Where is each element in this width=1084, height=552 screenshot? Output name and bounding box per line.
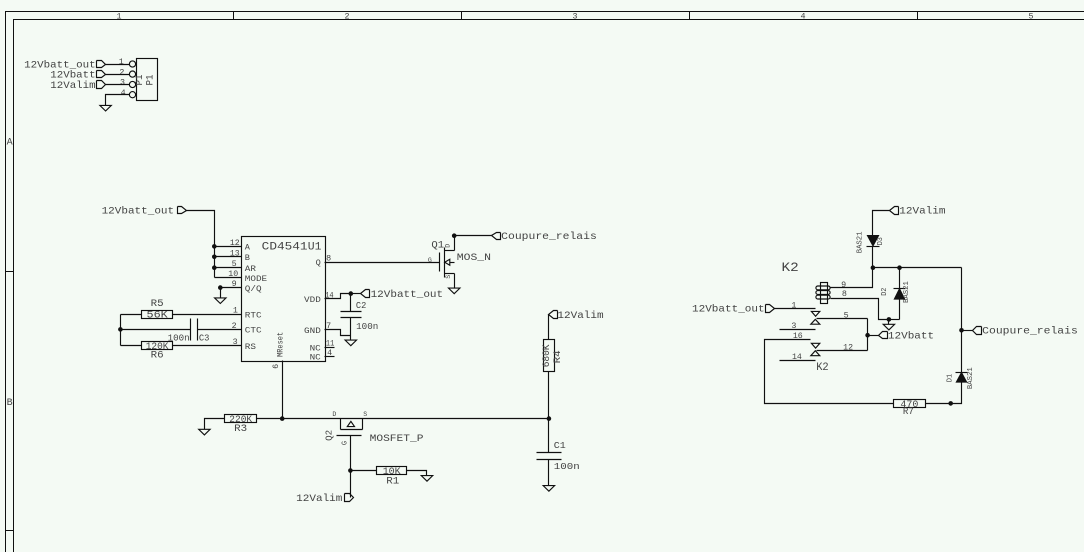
svg-text:B: B <box>245 253 250 263</box>
svg-text:3: 3 <box>572 11 577 21</box>
junction 12Vbatt node <box>865 333 870 338</box>
wire R7 right <box>926 403 951 405</box>
wire to 12Vbatt label <box>868 335 879 337</box>
svg-text:100n: 100n <box>168 334 190 344</box>
net label 12Valim at Q2 gate <box>345 494 354 502</box>
wire top rail down to Coupure node <box>961 268 963 331</box>
junction top node D2 <box>897 265 902 270</box>
svg-text:4: 4 <box>800 11 805 21</box>
transistor Q2 MOSFET_P <box>323 411 423 471</box>
ground <box>421 476 432 482</box>
svg-text:Coupure_relais: Coupure_relais <box>982 326 1078 338</box>
ground <box>449 288 460 294</box>
svg-text:CD4541: CD4541 <box>262 242 308 254</box>
net label 12Valim top right <box>890 207 899 215</box>
svg-text:12Vbatt: 12Vbatt <box>888 330 934 342</box>
svg-text:BAS21: BAS21 <box>857 231 865 253</box>
wire U1 pin 9 QQ to ground <box>221 288 242 298</box>
net label 12Vbatt_out at VDD <box>361 290 370 298</box>
svg-text:AR: AR <box>245 264 256 274</box>
op-amp U1 CD4541 body <box>242 237 326 362</box>
wire vertical R5-R6 tie <box>120 315 122 346</box>
wire stub U1 pin 4 NC <box>325 356 335 358</box>
svg-text:1: 1 <box>116 11 121 21</box>
net label 12Valim at P1 pin 3 <box>97 81 106 89</box>
svg-text:Q2: Q2 <box>323 430 334 441</box>
relay K2 contact 2 <box>811 343 820 355</box>
resistor R7 <box>894 400 926 408</box>
wire U1 pin 7 GND to C2 bottom <box>325 330 351 336</box>
svg-text:BAS21: BAS21 <box>903 281 911 303</box>
wire K2 pin 1 <box>775 308 816 310</box>
diode D3 BAS21 <box>868 236 879 246</box>
wire node to ground <box>888 320 890 325</box>
wire D2 anode to node <box>889 319 900 321</box>
wire stub U1 pin 5 AR <box>215 267 242 269</box>
wire Q1 drain to Coupure_relais <box>455 235 492 237</box>
svg-text:3: 3 <box>120 78 125 88</box>
wire C3 to CTC pin 2 <box>198 329 242 331</box>
wire gate node down to 12Valim <box>350 471 352 498</box>
svg-text:G: G <box>428 257 432 264</box>
resistor R5 <box>142 311 173 319</box>
svg-text:GND: GND <box>304 326 321 336</box>
wire K2 pin 14 <box>780 360 816 362</box>
capacitor C1 <box>537 452 562 454</box>
svg-text:Q1: Q1 <box>431 240 444 251</box>
svg-text:MOSFET_P: MOSFET_P <box>370 434 424 445</box>
svg-text:MOS_N: MOS_N <box>457 253 491 264</box>
svg-text:12Vbatt_out: 12Vbatt_out <box>692 304 765 316</box>
svg-text:BAS21: BAS21 <box>967 367 975 389</box>
junction at pin 13 tap <box>212 254 217 259</box>
svg-text:12Valim: 12Valim <box>557 310 603 322</box>
svg-text:RTC: RTC <box>245 310 262 320</box>
svg-text:K2: K2 <box>816 362 829 374</box>
junction at pin 9 corner <box>218 285 223 290</box>
wire K2 pin 8 <box>831 299 889 320</box>
svg-text:S: S <box>445 275 452 279</box>
svg-text:R3: R3 <box>234 424 247 435</box>
relay K2 contact 1 <box>811 311 820 324</box>
capacitor C2 <box>350 294 352 312</box>
wire P1 pin 4 to ground <box>106 95 130 106</box>
net label Coupure_relais at Q1 <box>492 233 501 240</box>
relay K2 coil <box>816 283 830 304</box>
svg-text:Q: Q <box>316 258 321 268</box>
ground <box>199 429 210 435</box>
wire K2 pin 16 to R7 <box>765 340 894 404</box>
wire 12Valim to D3 <box>873 211 890 236</box>
net label 12Vbatt at P1 pin 2 <box>97 71 106 78</box>
net label 12Valim at R4 <box>549 311 558 319</box>
svg-text:4: 4 <box>121 88 126 98</box>
svg-text:12: 12 <box>230 238 240 248</box>
junction Q1 drain <box>452 233 457 238</box>
wire P1 pin 1 <box>106 64 130 66</box>
wire Coupure node to D1 <box>961 331 963 373</box>
junction D2 ground node <box>887 317 892 322</box>
wire stub U1 pin 10 MODE <box>215 277 242 279</box>
wire R4 to node <box>548 372 550 419</box>
svg-text:8: 8 <box>842 289 847 299</box>
wire R5 to RTC pin 1 <box>173 314 242 316</box>
wire R5 left <box>121 314 142 316</box>
wire Coupure stub <box>962 330 973 332</box>
svg-text:12Vbatt_out: 12Vbatt_out <box>102 205 175 217</box>
wire CTC left to C3 <box>121 329 191 331</box>
junction at pin 12 tap <box>212 244 217 249</box>
svg-text:VDD: VDD <box>304 295 321 305</box>
ground <box>215 298 226 304</box>
wire R6 left <box>121 345 142 347</box>
svg-text:D1: D1 <box>946 373 954 382</box>
diode D2 BAS21 <box>899 268 901 289</box>
wire R3 left to ground <box>205 419 225 430</box>
svg-text:R1: R1 <box>386 476 399 487</box>
net label 12Vbatt_out at K2 pin 1 <box>766 305 775 313</box>
wire C1 to ground <box>548 460 550 486</box>
junction Coupure node <box>959 328 964 333</box>
resistor R6 <box>142 342 173 350</box>
svg-text:D2: D2 <box>881 288 889 296</box>
svg-text:A: A <box>7 138 13 149</box>
svg-text:Q/Q: Q/Q <box>245 284 262 294</box>
svg-text:MODE: MODE <box>245 274 267 284</box>
wire D1 anode down <box>951 383 962 404</box>
svg-text:680K: 680K <box>542 344 553 368</box>
wire stub U1 pin 13 B <box>215 256 242 258</box>
svg-text:2: 2 <box>119 67 124 77</box>
svg-text:G: G <box>341 441 349 445</box>
wire U1 pin 14 VDD to C2 <box>325 294 351 299</box>
svg-text:9: 9 <box>232 279 237 289</box>
wire stub U1 pin 12 A <box>215 246 242 248</box>
junction R4 C1 node <box>547 416 552 421</box>
svg-text:CTC: CTC <box>245 326 262 336</box>
net label 12Vbatt_out to U1 inputs <box>178 207 187 214</box>
ground <box>883 324 894 330</box>
junction Q2 gate node <box>348 468 353 473</box>
svg-text:R7: R7 <box>903 407 914 418</box>
junction R7 right node <box>948 401 953 406</box>
wire stub U1 pin 11 NC <box>325 347 335 349</box>
junction RC tie <box>118 327 123 332</box>
wire K2 pin 12 <box>817 350 868 352</box>
svg-text:NC: NC <box>310 353 321 363</box>
resistor R4 <box>544 340 555 372</box>
wire VDD node to label <box>351 293 361 295</box>
wire K2 pin 9 <box>831 268 873 288</box>
resistor R3 <box>225 415 257 423</box>
svg-text:S: S <box>363 411 367 418</box>
svg-text:D3: D3 <box>877 237 885 246</box>
capacitor C3 <box>190 319 192 341</box>
svg-text:6: 6 <box>271 364 281 369</box>
wire node to C1 <box>548 419 550 453</box>
ground <box>345 340 356 346</box>
wire U1 pin 8 Q to Q1 gate <box>325 262 440 264</box>
svg-text:13: 13 <box>230 248 240 258</box>
ground <box>543 486 554 492</box>
svg-text:12Vbatt_out: 12Vbatt_out <box>371 289 444 301</box>
svg-text:A: A <box>245 243 251 253</box>
wire P1 pin 3 <box>106 84 130 86</box>
svg-text:C1: C1 <box>554 440 566 451</box>
wire C2 bottom to ground <box>350 336 352 341</box>
wire top rail <box>873 267 962 269</box>
wire pins 5-12 tie <box>867 319 869 351</box>
ground <box>100 105 111 111</box>
svg-text:K2: K2 <box>782 260 799 275</box>
svg-text:Coupure_relais: Coupure_relais <box>501 231 597 243</box>
svg-text:12Valim: 12Valim <box>296 493 342 505</box>
wire K2 pin 3 <box>780 329 816 331</box>
net label 12Vbatt <box>879 332 888 339</box>
wire P1 pin 2 <box>106 74 130 76</box>
wire R3 to Q2 rail <box>257 418 549 420</box>
svg-text:100n: 100n <box>554 461 580 472</box>
svg-text:12Valim: 12Valim <box>899 206 945 218</box>
wire gate node to R1 <box>351 470 377 472</box>
svg-text:R5: R5 <box>151 299 164 310</box>
junction MReset node <box>280 416 285 421</box>
svg-text:R4: R4 <box>553 350 564 363</box>
wire D3 to top node <box>872 247 874 268</box>
net label Coupure_relais right <box>973 327 982 335</box>
net label 12Vbatt_out at P1 pin 1 <box>97 61 106 68</box>
connector P1 pin circles <box>129 61 135 67</box>
transistor Q1 MOS_N <box>428 236 491 288</box>
resistor R1 <box>377 467 407 475</box>
svg-text:12Valim: 12Valim <box>50 80 95 92</box>
junction VDD node <box>349 291 354 296</box>
svg-text:5: 5 <box>1028 11 1033 21</box>
wire 12Valim to R4 <box>548 315 550 340</box>
svg-text:10: 10 <box>228 269 238 279</box>
svg-text:12Vbatt: 12Vbatt <box>50 69 95 81</box>
wire R6 to RS pin 3 <box>173 345 242 347</box>
junction at pin 5 tap <box>212 265 217 270</box>
svg-text:D: D <box>444 244 451 248</box>
wire U1 pin 6 MReset down <box>282 361 284 419</box>
svg-text:R6: R6 <box>151 350 164 361</box>
svg-text:P1: P1 <box>145 74 156 85</box>
svg-text:56K: 56K <box>147 311 169 322</box>
svg-text:100n: 100n <box>356 322 378 332</box>
svg-text:U1: U1 <box>308 242 322 254</box>
svg-text:RS: RS <box>245 342 256 352</box>
svg-text:2: 2 <box>344 11 349 21</box>
svg-text:C3: C3 <box>199 334 210 344</box>
junction top node left <box>871 265 876 270</box>
svg-text:D: D <box>332 411 336 418</box>
connector P1 body <box>137 59 158 101</box>
wire R1 to ground <box>407 471 427 476</box>
svg-text:C2: C2 <box>356 301 366 311</box>
svg-text:5: 5 <box>232 259 237 269</box>
wire K2 pin 5 <box>817 318 868 320</box>
svg-text:B: B <box>7 398 13 409</box>
wire 12Vbatt_out to U1 pins 12 13 5 10 <box>187 211 215 278</box>
diode D1 BAS21 <box>956 372 968 374</box>
svg-text:MReset: MReset <box>276 332 286 357</box>
svg-text:1: 1 <box>119 57 124 67</box>
